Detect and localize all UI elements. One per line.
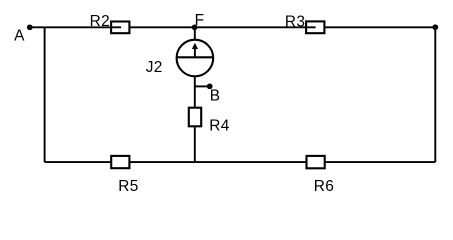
svg-text:A: A [14,27,25,44]
node A [14,24,33,44]
svg-text:R4: R4 [209,117,230,134]
svg-text:F: F [195,12,205,29]
svg-text:R6: R6 [314,178,334,195]
wire top: R2 to R3 center through node F [129,26,315,28]
current source J2 [146,40,213,77]
wire bottom: R6 to right corner [325,161,436,163]
wire top: R3 to right node [324,26,435,28]
wire top: node A to R2 center [30,26,121,28]
wire bottom: R5 to R6 [129,161,306,163]
resistor R2 [90,13,130,33]
wire: node F down to J2 [194,27,196,40]
wire: J2 down to R4 [194,76,196,108]
svg-text:R2: R2 [90,13,110,30]
resistor R6 [307,156,335,195]
node B [207,83,221,104]
node F [192,12,205,30]
resistor R5 [111,156,138,195]
svg-text:B: B [210,87,221,104]
node right (top-right junction) [432,24,438,30]
resistor R4 [189,108,230,135]
wire right vertical [434,27,436,162]
wire: R4 down to bottom wire junction [194,126,196,162]
wire bottom: left corner to R5 [45,161,112,163]
svg-text:J2: J2 [146,59,163,76]
wire: stub to node B [195,85,210,87]
resistor R3 [285,13,325,33]
svg-text:R5: R5 [118,178,138,195]
wire left vertical [44,27,46,162]
svg-text:R3: R3 [285,13,305,30]
